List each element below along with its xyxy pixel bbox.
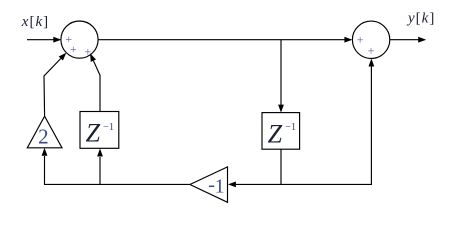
svg-text:−1: −1 xyxy=(103,122,114,133)
svg-text:Z: Z xyxy=(268,119,283,148)
svg-text:+: + xyxy=(70,42,77,56)
svg-text:2: 2 xyxy=(38,125,49,149)
svg-text:Z: Z xyxy=(86,119,101,148)
svg-text:−1: −1 xyxy=(285,122,296,133)
svg-text:y[k]: y[k] xyxy=(406,10,434,26)
svg-text:+: + xyxy=(368,44,375,58)
svg-text:x[k]: x[k] xyxy=(21,14,48,30)
svg-text:+: + xyxy=(357,32,364,46)
svg-text:1: 1 xyxy=(215,177,225,198)
svg-text:+: + xyxy=(85,45,92,59)
